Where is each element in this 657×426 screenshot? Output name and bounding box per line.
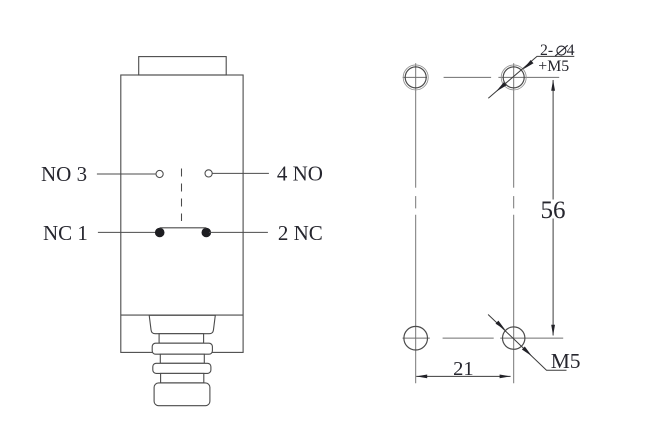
- leader M5 diagonal line: [488, 315, 566, 371]
- svg-text:+M5: +M5: [538, 58, 569, 75]
- svg-text:2-: 2-: [540, 42, 553, 59]
- svg-text:4 NO: 4 NO: [277, 162, 323, 186]
- centerline vertical left: [415, 63, 417, 383]
- centerline vertical right: [513, 63, 515, 383]
- plunger rib 1: [152, 343, 212, 354]
- switch body outline: [121, 75, 243, 352]
- mounting hole top-left: [405, 67, 426, 88]
- svg-text:NO 3: NO 3: [41, 162, 87, 186]
- dim 56 arrow down: [551, 325, 555, 336]
- dimension line 56: [552, 80, 554, 336]
- centerline horizontal bottom row: [403, 337, 564, 339]
- plunger end cap: [154, 383, 210, 406]
- svg-text:21: 21: [453, 358, 474, 380]
- wire: NO terminal lead left: [97, 173, 156, 175]
- contact 4 NO (open circle): [205, 170, 212, 177]
- diameter symbol slash: [555, 45, 568, 56]
- thread circle top-right: [501, 65, 526, 90]
- actuator dashed centerline: [181, 169, 183, 222]
- switch body top cap: [139, 57, 227, 75]
- leader M5 arrowhead outer: [522, 347, 532, 357]
- leader M5 arrowhead at hole: [496, 321, 506, 331]
- svg-text:NC 1: NC 1: [43, 221, 88, 245]
- wire: NC moving contact bridge: [160, 227, 207, 229]
- mounting hole bottom-right: [503, 327, 525, 349]
- mounting hole bottom-left: [404, 326, 428, 350]
- wire: NO terminal lead right: [212, 172, 269, 174]
- centerline horizontal top row: [403, 76, 560, 78]
- thread circle top-left: [403, 65, 428, 90]
- plunger collar (trapezoid): [149, 315, 215, 333]
- diameter symbol circle: [557, 46, 566, 55]
- dim 56 arrow up: [551, 80, 555, 91]
- mounting hole top-right: [503, 67, 524, 88]
- dim 21 arrow left: [416, 375, 427, 379]
- svg-text:56: 56: [541, 197, 566, 224]
- dim 21 arrow right: [500, 375, 511, 379]
- leader 2-o4 arrowhead at hole: [523, 60, 534, 69]
- wire: NC terminal lead left: [98, 231, 157, 233]
- plunger neck 1: [159, 334, 204, 344]
- plunger rib 2: [153, 363, 211, 373]
- body/base parting line: [121, 314, 243, 316]
- svg-text:4: 4: [567, 42, 575, 59]
- contact 2 NC (filled dot): [202, 228, 211, 237]
- svg-text:2 NC: 2 NC: [278, 221, 323, 245]
- wire: NC terminal lead right: [209, 231, 268, 233]
- dimension line 21: [416, 375, 510, 377]
- svg-text:M5: M5: [551, 349, 581, 373]
- leader 2-o4 diagonal line: [488, 56, 574, 98]
- plunger neck 3: [161, 373, 204, 383]
- contact NO 3 (open circle): [156, 170, 163, 177]
- plunger neck 2: [160, 354, 204, 363]
- leader 2-o4 arrowhead outer: [496, 82, 507, 91]
- contact NC 1 (filled dot): [155, 228, 164, 237]
